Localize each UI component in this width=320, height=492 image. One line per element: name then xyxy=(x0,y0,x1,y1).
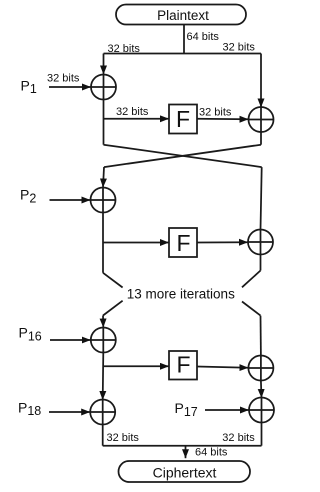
svg-text:P16: P16 xyxy=(19,325,42,344)
svg-text:F: F xyxy=(176,230,190,256)
svg-text:P2: P2 xyxy=(20,187,36,206)
svg-text:P17: P17 xyxy=(175,400,198,419)
svg-text:32 bits: 32 bits xyxy=(116,106,149,118)
svg-text:P18: P18 xyxy=(18,399,41,418)
svg-text:13 more iterations: 13 more iterations xyxy=(127,287,235,302)
svg-text:32 bits: 32 bits xyxy=(47,73,80,85)
svg-text:32 bits: 32 bits xyxy=(222,432,255,444)
svg-text:64 bits: 64 bits xyxy=(187,31,220,43)
svg-text:Plaintext: Plaintext xyxy=(157,8,209,23)
svg-text:32 bits: 32 bits xyxy=(223,42,256,54)
svg-text:P1: P1 xyxy=(21,77,37,96)
svg-text:32 bits: 32 bits xyxy=(199,107,232,119)
svg-text:64 bits: 64 bits xyxy=(195,447,228,459)
svg-text:32 bits: 32 bits xyxy=(107,432,140,444)
svg-text:Ciphertext: Ciphertext xyxy=(153,465,217,481)
svg-text:F: F xyxy=(176,106,190,132)
svg-text:32 bits: 32 bits xyxy=(108,43,141,55)
svg-text:F: F xyxy=(176,352,190,378)
